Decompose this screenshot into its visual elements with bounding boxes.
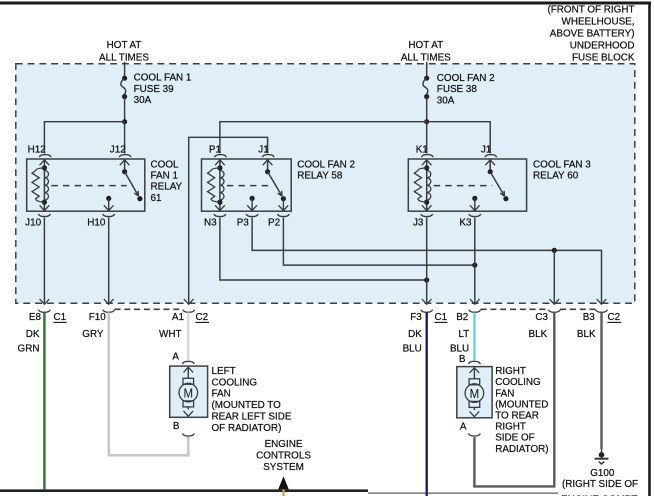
connector row arrow E8	[40, 299, 50, 304]
svg-text:B: B	[173, 421, 180, 432]
svg-text:M: M	[184, 385, 194, 400]
svg-text:RADIATOR): RADIATOR)	[495, 444, 548, 455]
relay COOL FAN 3 RELAY 60 coil	[426, 159, 428, 211]
svg-text:61: 61	[151, 193, 162, 204]
connector row arrow A1	[184, 299, 194, 304]
relay COOL FAN 3 RELAY 60 switch	[489, 159, 491, 171]
relay COOL FAN 1 RELAY 61 mechanical link (dashed)	[51, 185, 126, 187]
junction node N3-J3	[424, 277, 429, 282]
svg-text:P2: P2	[268, 217, 280, 228]
svg-text:N3: N3	[204, 217, 217, 228]
left cooling fan motor body	[170, 366, 208, 417]
connector row arrow B2	[470, 299, 480, 304]
wire hot feed into fuse 39	[124, 62, 126, 78]
svg-text:REAR LEFT SIDE: REAR LEFT SIDE	[212, 412, 292, 423]
svg-text:HOT AT: HOT AT	[107, 40, 142, 51]
right fan motor lead-in arrow	[470, 368, 480, 373]
ground G100 symbol	[599, 452, 605, 458]
wire junction down to J12	[124, 122, 126, 154]
wire J10 to E8	[43, 218, 45, 304]
relay COOL FAN 2 RELAY 58 mechanical link (dashed)	[227, 185, 270, 187]
svg-text:C2: C2	[608, 312, 621, 323]
relay COOL FAN 3 RELAY 60 mechanical link (dashed)	[434, 185, 493, 187]
svg-text:COOL FAN 3: COOL FAN 3	[533, 159, 591, 170]
relay COOL FAN 1 RELAY 61 contact	[106, 196, 111, 201]
svg-text:C1: C1	[435, 312, 448, 323]
relay COOL FAN 2 RELAY 58 body	[202, 159, 292, 211]
svg-text:A1: A1	[172, 312, 185, 323]
fuse F39 COOL FAN 1	[122, 76, 127, 81]
svg-text:GRN: GRN	[18, 343, 40, 354]
svg-text:H12: H12	[28, 145, 46, 156]
left fan motor brush top	[183, 378, 194, 384]
wire K3 to B2	[474, 218, 476, 304]
engine controls off-page arrow	[278, 476, 289, 489]
wire J3 to F3	[426, 218, 428, 304]
fuse F38 COOL FAN 2	[424, 76, 429, 81]
connector row arrow B3	[597, 299, 607, 304]
svg-text:M: M	[470, 386, 480, 401]
svg-text:LEFT: LEFT	[212, 366, 236, 377]
connector E8 terminal	[39, 310, 51, 313]
wire F3 DK BLU	[426, 312, 428, 496]
svg-text:COOL FAN 1: COOL FAN 1	[134, 72, 192, 83]
left fan motor lead-in arrow	[184, 367, 194, 372]
connector row arrow F3	[422, 299, 432, 304]
svg-text:B: B	[459, 354, 466, 365]
svg-text:(MOUNTED TO: (MOUNTED TO	[212, 400, 282, 411]
relay COOL FAN 2 RELAY 58 contact	[250, 196, 255, 201]
connector B2 terminal	[469, 310, 481, 313]
svg-text:30A: 30A	[437, 96, 455, 107]
svg-text:RIGHT: RIGHT	[495, 366, 526, 377]
svg-text:WHEELHOUSE,: WHEELHOUSE,	[562, 17, 635, 28]
svg-text:B3: B3	[583, 312, 596, 323]
page right border	[648, 2, 651, 496]
svg-text:DK: DK	[26, 329, 40, 340]
svg-text:C1: C1	[54, 312, 67, 323]
svg-text:GRY: GRY	[82, 329, 104, 340]
connector row arrow C3	[550, 299, 560, 304]
svg-text:COOLING: COOLING	[212, 377, 258, 388]
svg-text:TO REAR: TO REAR	[495, 411, 539, 422]
svg-text:SYSTEM: SYSTEM	[263, 462, 304, 473]
svg-text:CONTROLS: CONTROLS	[256, 451, 311, 462]
svg-text:A: A	[460, 422, 467, 433]
svg-text:RELAY: RELAY	[151, 182, 183, 193]
right fan motor brush top	[469, 379, 480, 385]
relay COOL FAN 1 RELAY 61 coil	[43, 159, 45, 211]
svg-text:FUSE 39: FUSE 39	[134, 84, 175, 95]
wire P3 to B3	[252, 218, 601, 304]
svg-text:H10: H10	[87, 217, 106, 228]
connector dash B2-C3	[481, 308, 549, 310]
relay COOL FAN 1 RELAY 61 switch	[124, 159, 126, 171]
svg-text:UNDERHOOD: UNDERHOOD	[570, 41, 635, 52]
svg-text:C2: C2	[196, 312, 209, 323]
wire junction to P1 branch	[220, 122, 427, 154]
junction node P2-K3	[472, 263, 477, 268]
svg-text:C3: C3	[535, 312, 548, 323]
svg-text:BLU: BLU	[403, 343, 422, 354]
svg-text:ABOVE BATTERY): ABOVE BATTERY)	[550, 29, 635, 40]
bottom section divider line	[0, 489, 368, 492]
right cooling fan motor body	[457, 367, 492, 418]
svg-text:COOL FAN 2: COOL FAN 2	[297, 159, 355, 170]
svg-text:FUSE BLOCK: FUSE BLOCK	[572, 53, 635, 64]
svg-text:K3: K3	[459, 217, 472, 228]
svg-text:FAN: FAN	[495, 388, 514, 399]
left fan motor lead-out arrow	[187, 407, 189, 410]
svg-text:FAN 1: FAN 1	[151, 171, 179, 182]
connector F3 terminal	[421, 310, 433, 313]
svg-text:G100: G100	[590, 468, 615, 479]
wire fuse 38 to junction	[426, 97, 428, 122]
wire hot feed into fuse 38	[426, 62, 428, 78]
wire H10 to F10	[108, 218, 110, 304]
svg-text:BLU: BLU	[450, 343, 469, 354]
left fan motor brush bottom	[183, 401, 194, 407]
right fan motor lead-out arrow	[473, 407, 475, 410]
wire P2 to K3 junction	[283, 218, 474, 266]
svg-text:LT: LT	[458, 329, 469, 340]
wire fuse 39 to junction	[124, 97, 126, 122]
svg-text:E8: E8	[29, 312, 42, 323]
bottom section divider line right (gray)	[368, 492, 558, 494]
svg-text:COOL FAN 2: COOL FAN 2	[437, 73, 495, 84]
svg-text:RELAY 60: RELAY 60	[533, 171, 579, 182]
wire A1 WHT	[187, 312, 189, 360]
svg-text:J10: J10	[25, 217, 41, 228]
relay COOL FAN 3 RELAY 60 contact	[472, 196, 477, 201]
connector A1 terminal	[183, 310, 195, 313]
svg-text:(RIGHT SIDE OF: (RIGHT SIDE OF	[562, 479, 638, 490]
svg-text:FUSE 38: FUSE 38	[437, 84, 478, 95]
svg-text:ENGINE: ENGINE	[265, 439, 303, 450]
relay COOL FAN 2 RELAY 58 contact exit arrow	[282, 199, 284, 210]
wire junction down to K1	[426, 122, 428, 154]
wire N3 to J3 junction	[220, 218, 427, 280]
wire engine controls TAN	[282, 489, 284, 496]
junction node C3 tap	[552, 248, 557, 253]
relay COOL FAN 2 RELAY 58 switch	[267, 159, 269, 171]
wire B2 LT BLU	[473, 312, 475, 360]
svg-text:COOL: COOL	[151, 159, 179, 170]
wire junction to J1 relay60 branch	[427, 122, 491, 154]
svg-text:OF RADIATOR): OF RADIATOR)	[212, 423, 282, 434]
svg-text:B2: B2	[456, 312, 468, 323]
connector dash C3-B3	[560, 308, 596, 310]
connector F10 terminal	[103, 310, 115, 313]
right fan motor brush bottom	[469, 401, 480, 407]
wire C3 drop	[553, 250, 555, 303]
svg-text:(MOUNTED: (MOUNTED	[495, 399, 548, 410]
svg-text:HOT AT: HOT AT	[408, 40, 443, 51]
wire A1 riser to J1 relay58	[189, 137, 268, 303]
relay COOL FAN 2 RELAY 58 coil	[219, 159, 221, 211]
connector dash F10-A1	[115, 308, 184, 310]
svg-text:30A: 30A	[134, 95, 152, 106]
underhood fuse block boundary (dashed box)	[16, 64, 635, 304]
right fan motor M circle	[465, 384, 484, 403]
connector C3 terminal	[548, 310, 560, 313]
svg-text:BLK: BLK	[529, 329, 548, 340]
junction node fuse 39 output	[122, 119, 127, 124]
svg-text:RELAY 58: RELAY 58	[297, 171, 343, 182]
svg-text:RIGHT: RIGHT	[495, 422, 526, 433]
svg-text:A: A	[172, 352, 179, 363]
wire E8 DK GRN	[43, 312, 45, 490]
svg-text:F10: F10	[89, 312, 107, 323]
svg-text:FAN: FAN	[212, 389, 231, 400]
svg-text:P3: P3	[237, 217, 250, 228]
svg-text:WHT: WHT	[159, 329, 181, 340]
connector B3 terminal	[596, 310, 608, 313]
left fan motor M circle	[179, 383, 198, 402]
svg-text:COOLING: COOLING	[495, 377, 541, 388]
page top border	[0, 2, 651, 5]
wire F10 GRY	[109, 312, 189, 455]
wire junction to H12 branch	[44, 122, 124, 154]
wire C3 BLK	[474, 312, 554, 486]
connector row arrow F10	[104, 299, 114, 304]
svg-text:BLK: BLK	[577, 329, 596, 340]
junction node fuse 38 output	[424, 119, 429, 124]
svg-text:F3: F3	[410, 312, 422, 323]
svg-text:J3: J3	[413, 217, 424, 228]
svg-text:ALL TIMES: ALL TIMES	[99, 52, 149, 63]
svg-text:(FRONT OF RIGHT: (FRONT OF RIGHT	[547, 5, 634, 16]
svg-text:DK: DK	[408, 329, 422, 340]
relay COOL FAN 1 RELAY 61 body	[27, 159, 145, 211]
relay COOL FAN 3 RELAY 60 body	[408, 159, 526, 211]
svg-text:SIDE OF: SIDE OF	[495, 433, 535, 444]
wire B3 BLK to ground	[600, 312, 602, 449]
